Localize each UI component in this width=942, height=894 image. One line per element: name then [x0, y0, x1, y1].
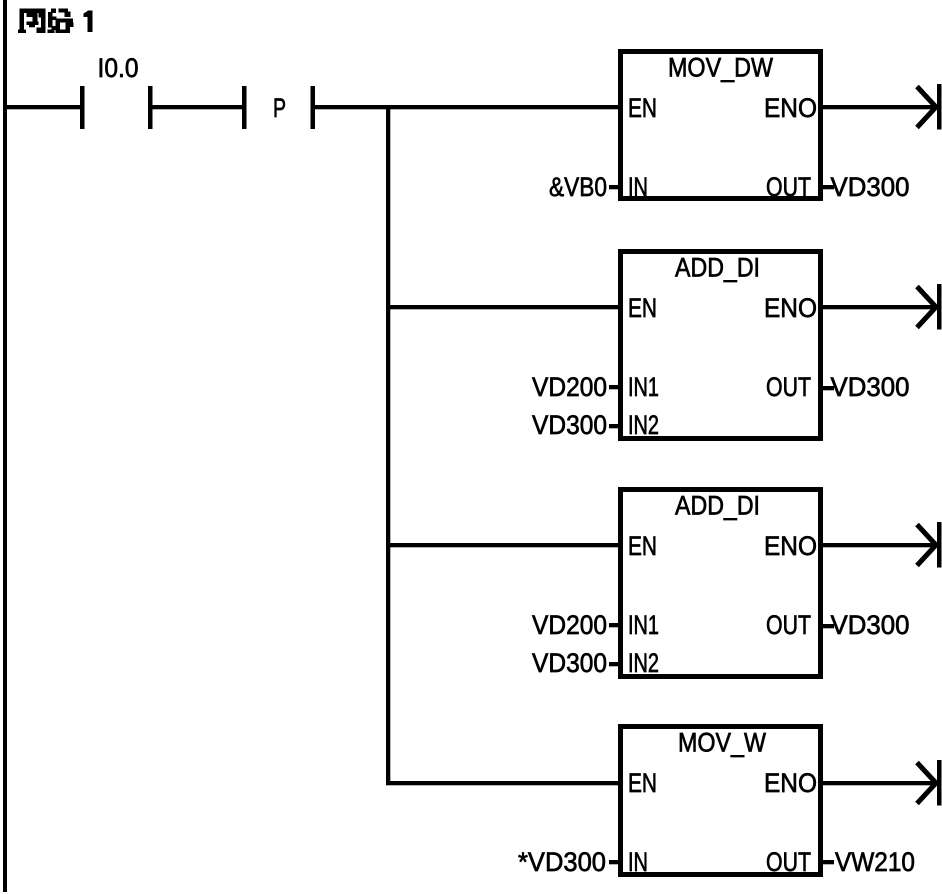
svg-text:VD300: VD300 — [532, 410, 607, 440]
wire MOV_W ENO to arrow — [820, 781, 937, 785]
svg-text:IN2: IN2 — [628, 410, 659, 440]
svg-text:IN: IN — [628, 847, 648, 877]
digit 1 — [84, 11, 93, 33]
char 络 — [48, 9, 74, 34]
contact P (positive edge) — [242, 86, 315, 129]
svg-text:P: P — [273, 93, 286, 123]
arrow continuation 3 — [917, 522, 942, 568]
pin IN2 value VD300 — [532, 648, 620, 678]
left power rail — [3, 0, 7, 892]
svg-text:ADD_DI: ADD_DI — [675, 491, 760, 521]
svg-text:VW210: VW210 — [835, 847, 915, 877]
svg-text:IN2: IN2 — [628, 648, 659, 678]
block U3 ADD_DI — [621, 490, 821, 679]
svg-text:VD300: VD300 — [532, 648, 607, 678]
pin IN value *VD300 — [518, 847, 620, 877]
svg-text:IN1: IN1 — [628, 372, 659, 402]
arrow continuation 2 — [917, 284, 942, 330]
svg-text:EN: EN — [628, 293, 657, 323]
svg-text:VD300: VD300 — [831, 372, 910, 402]
svg-text:MOV_W: MOV_W — [678, 728, 766, 758]
wire contact I0.0 to contact P — [150, 105, 244, 109]
svg-text:VD200: VD200 — [532, 372, 607, 402]
svg-text:OUT: OUT — [766, 372, 811, 402]
svg-text:OUT: OUT — [766, 847, 811, 877]
pin OUT value VD300 — [823, 372, 910, 402]
pin IN1 value VD200 — [532, 610, 620, 640]
wire ADD_DI 2 ENO to arrow — [820, 543, 937, 547]
svg-text:*VD300: *VD300 — [518, 847, 606, 877]
arrow continuation 4 — [917, 760, 942, 806]
contact I0.0 — [80, 53, 153, 129]
svg-text:EN: EN — [628, 768, 657, 798]
pin OUT value VD300 — [823, 610, 910, 640]
branch wire to MOV_W EN — [386, 781, 621, 785]
block U2 ADD_DI — [621, 252, 821, 441]
pin OUT value VW210 — [823, 847, 915, 877]
svg-text:ENO: ENO — [764, 531, 817, 561]
wire ADD_DI 1 ENO to arrow — [820, 305, 937, 309]
svg-text:ENO: ENO — [764, 93, 817, 123]
svg-text:OUT: OUT — [766, 172, 811, 202]
svg-text:I0.0: I0.0 — [98, 53, 139, 83]
svg-text:EN: EN — [628, 531, 657, 561]
char 网 — [18, 9, 46, 34]
pin IN2 value VD300 — [532, 410, 620, 440]
svg-text:VD300: VD300 — [831, 610, 910, 640]
pin IN1 value VD200 — [532, 372, 620, 402]
svg-text:ADD_DI: ADD_DI — [675, 253, 760, 283]
svg-text:IN: IN — [628, 172, 648, 202]
branch wire to ADD_DI 2 EN — [386, 543, 621, 547]
wire rail to contact I0.0 — [5, 105, 82, 109]
svg-text:MOV_DW: MOV_DW — [668, 53, 773, 83]
block U1 MOV_DW — [621, 52, 821, 203]
svg-text:&VB0: &VB0 — [549, 172, 607, 202]
block U4 MOV_W — [621, 727, 821, 878]
svg-text:VD300: VD300 — [831, 172, 910, 202]
branch vertical wire — [386, 105, 390, 785]
branch wire to ADD_DI 1 EN — [386, 305, 621, 309]
network label 网络 1 — [18, 9, 93, 34]
wire contact P to block MOV_DW — [313, 105, 621, 109]
svg-text:ENO: ENO — [764, 768, 817, 798]
pin IN value &VB0 — [549, 172, 620, 202]
svg-text:EN: EN — [628, 93, 657, 123]
svg-text:OUT: OUT — [766, 610, 811, 640]
arrow continuation 1 — [917, 84, 942, 130]
svg-text:VD200: VD200 — [532, 610, 607, 640]
svg-text:IN1: IN1 — [628, 610, 659, 640]
pin OUT value VD300 — [823, 172, 910, 202]
wire MOV_DW ENO to arrow — [820, 105, 937, 109]
svg-text:ENO: ENO — [764, 293, 817, 323]
